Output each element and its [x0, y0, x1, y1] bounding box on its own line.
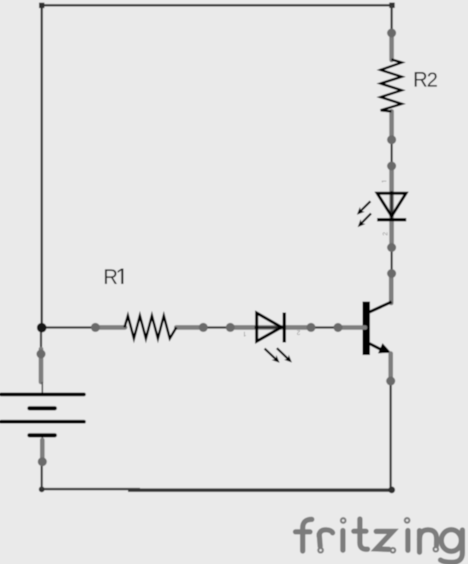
battery BT1 — [1, 349, 84, 466]
bendpoint top-left — [39, 3, 44, 8]
wire: R1 pin2 to LED1 pin1 — [203, 326, 230, 328]
battery plate long 2 — [1, 420, 84, 424]
bendpoint bottom-right — [388, 487, 395, 494]
wire: left vertical — [41, 5, 43, 328]
wire: R2 pin2 to LED2 pin1 — [391, 140, 393, 166]
wire: bottom horizontal right part — [128, 488, 392, 492]
LED LED1 (horizontal, base branch) — [226, 313, 316, 363]
pin label 1 (LED1) — [244, 332, 246, 337]
wire: LED1 pin2 to Q1 base — [311, 326, 338, 328]
logo letter n — [417, 531, 422, 553]
wire: node to battery positive pin — [40, 328, 42, 354]
wire: Q1 emitter to bottom-right corner — [389, 381, 391, 490]
wire: node to R1 pin1 — [42, 326, 96, 328]
label R1 — [105, 269, 123, 284]
wire: top horizontal — [42, 4, 392, 6]
transistor Q1 (NPN) — [334, 269, 397, 386]
resistor R1 — [91, 316, 208, 339]
pin label 2 (LED2) — [383, 232, 388, 235]
battery plate short 2 — [29, 433, 54, 437]
fritzing logo — [296, 518, 463, 562]
logo letter r — [319, 530, 332, 536]
battery plate short 1 — [29, 406, 54, 410]
logo letter f — [303, 519, 312, 551]
wire: top-right corner to R2 pin1 — [390, 5, 392, 33]
bendpoint bottom-left — [39, 486, 45, 492]
wire: battery negative pin to bottom-left corner — [41, 462, 43, 490]
wire: bottom horizontal left part — [42, 488, 140, 490]
junction node (battery + / R1 / left wire) — [37, 323, 47, 333]
logo letter i (second) — [405, 531, 410, 551]
logo letter t — [360, 519, 368, 549]
pin label 2 (LED1) — [297, 330, 300, 335]
logo letter z — [376, 531, 393, 549]
battery plate long 1 — [1, 393, 84, 397]
label R2 — [415, 72, 437, 87]
bendpoint top-right — [389, 3, 394, 8]
logo letter i (first) — [340, 531, 345, 551]
logo letter g — [441, 530, 461, 552]
pin label 1 (LED2) — [382, 181, 387, 183]
wire: LED2 pin2 to Q1 collector — [391, 248, 393, 274]
LED LED2 (vertical, right branch) — [357, 162, 406, 253]
resistor R2 — [381, 29, 402, 145]
